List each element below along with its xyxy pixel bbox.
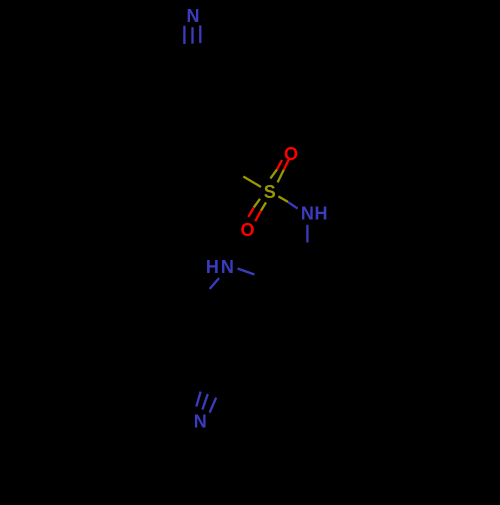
bond N-CH2 (visible N-half, vertical blue) [306,225,308,243]
bond S-N (sulfonamide, olive half + blue half) [278,196,297,208]
atom label NH (sulfonamide nitrogen) [301,204,328,224]
svg-text:O: O [240,220,254,240]
svg-text:S: S [264,182,276,202]
svg-text:N: N [301,204,314,224]
atom label HN (pyrrole nitrogen) [206,257,234,277]
double bond S=O upper, line 1 (olive half + red half) [270,160,282,178]
bond N1-C2 pyrrole (visible N-half, blue, to the right) [238,269,255,275]
bond ring-C to S (visible S-half, olive) [243,177,261,188]
bond N1-C5 pyrrole (visible N-half, blue, down-left) [210,278,219,289]
double bond S=O lower, line 2 (olive half + red half) [255,202,266,221]
triple bond C#N (top, visible N-half, 3 lines) [184,25,200,44]
svg-text:N: N [221,257,234,277]
triple bond C#N (bottom nitrile, visible N-half, 3 lines) [196,392,216,413]
double bond S=O upper, line 2 (olive half + red half) [278,158,290,182]
svg-text:N: N [194,412,207,432]
svg-text:H: H [315,204,328,224]
svg-text:N: N [187,6,200,26]
svg-text:H: H [206,257,219,277]
double bond S=O lower, line 1 (olive half + red half) [248,199,260,217]
svg-text:O: O [284,144,298,164]
